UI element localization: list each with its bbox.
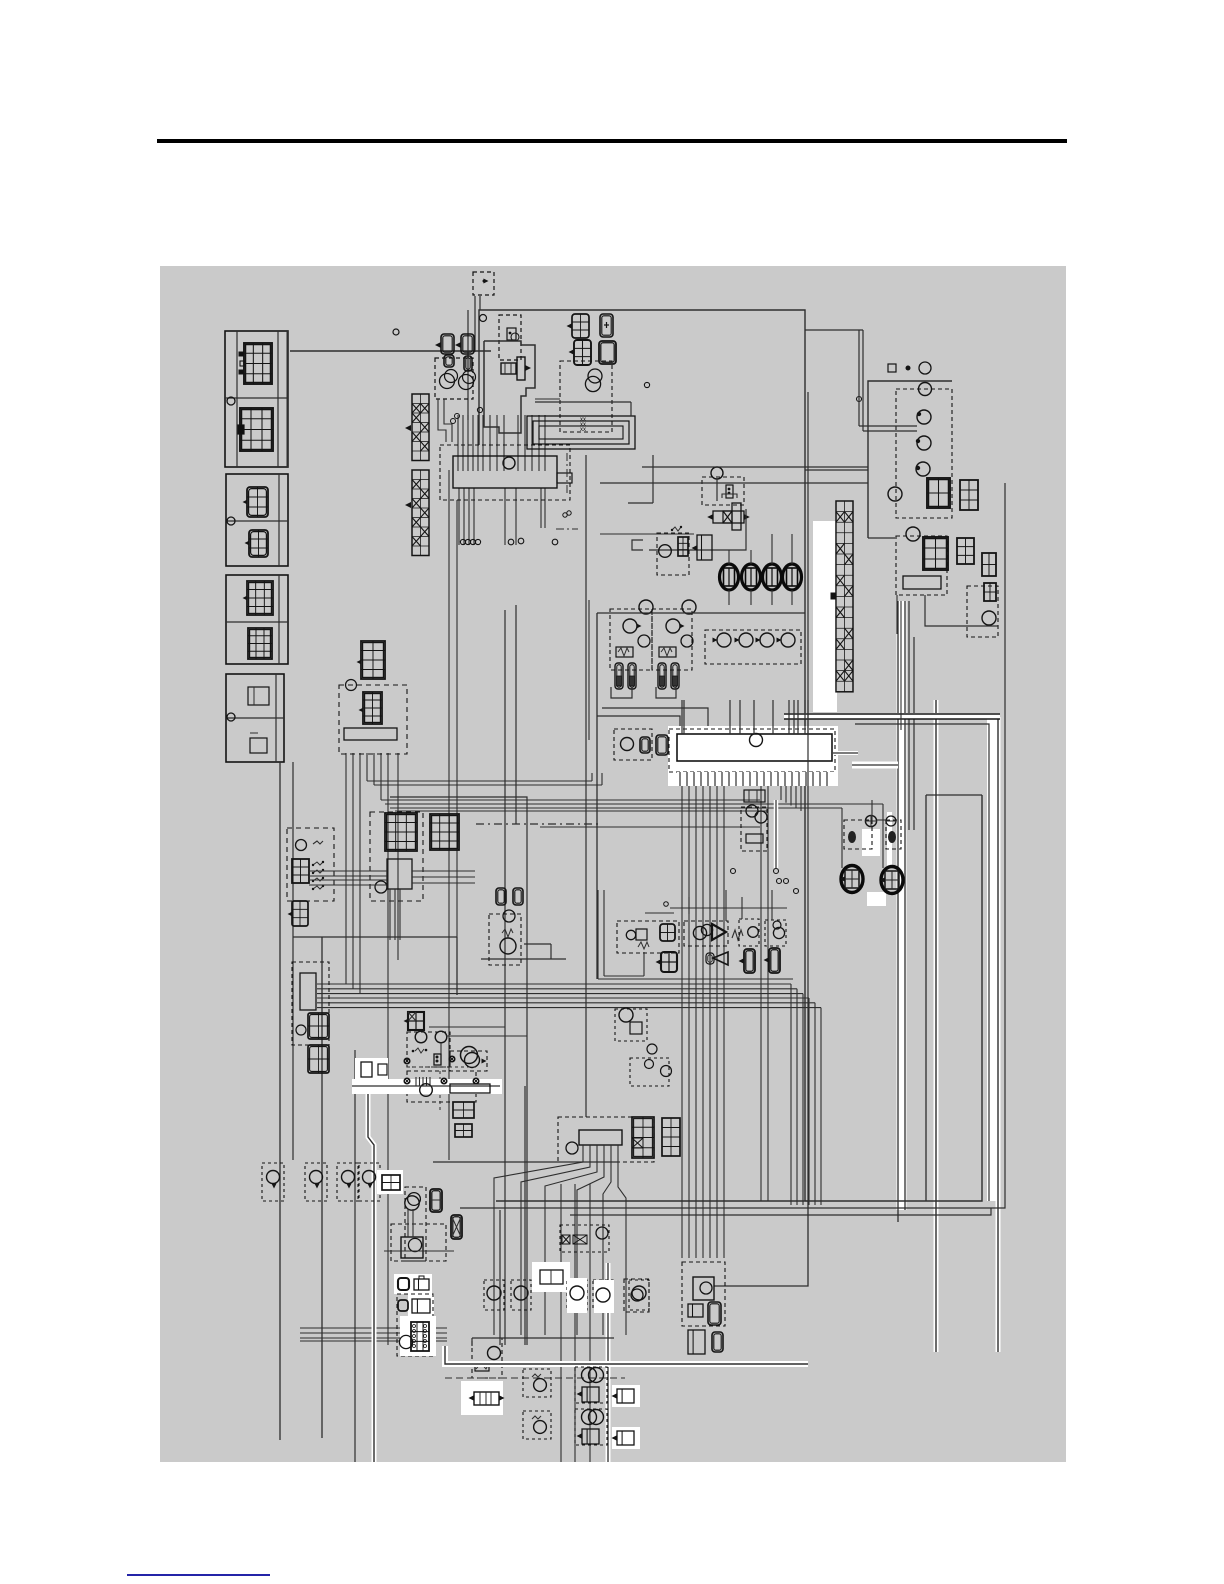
svg-text:xx: xx <box>580 427 586 433</box>
